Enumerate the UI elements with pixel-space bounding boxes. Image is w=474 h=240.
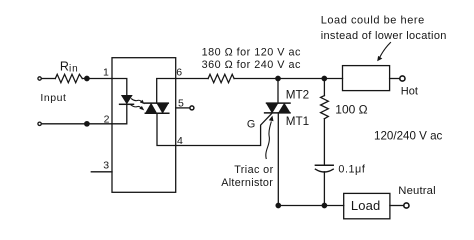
svg-text:Input: Input	[40, 92, 66, 104]
svg-text:Load could be here: Load could be here	[321, 15, 425, 27]
node MT2 junction	[276, 76, 280, 80]
wire pin4 inner	[157, 113, 176, 145]
gate wire	[176, 113, 272, 145]
svg-text:Hot: Hot	[401, 85, 418, 97]
svg-text:100 Ω: 100 Ω	[335, 103, 367, 117]
input terminal (top)	[38, 77, 41, 80]
node MT1 bottom junction	[276, 203, 280, 207]
svg-text:0.1μf: 0.1μf	[338, 163, 365, 175]
node pin2 junction	[85, 122, 89, 126]
svg-text:MT1: MT1	[286, 115, 309, 128]
svg-text:Triac or: Triac or	[234, 164, 273, 176]
svg-text:Alternistor: Alternistor	[221, 177, 273, 189]
svg-text:MT2: MT2	[286, 88, 309, 101]
light arrow 2	[131, 105, 144, 110]
resistor Rin	[55, 74, 82, 82]
svg-text:instead of lower location: instead of lower location	[321, 30, 447, 42]
op-amp? no: optocoupler U1 package outline	[112, 58, 176, 193]
svg-text:4: 4	[177, 135, 183, 147]
pin 5 terminal circle	[190, 106, 194, 110]
wire	[42, 123, 112, 125]
node snubber junction top	[322, 76, 326, 80]
wire pin2 inner	[112, 104, 127, 124]
svg-text:2: 2	[104, 114, 110, 126]
capacitor C1 0.1uf	[315, 165, 333, 172]
node snubber bottom junction	[322, 203, 326, 207]
wire pin3 stub	[91, 171, 112, 173]
value label Rin	[60, 59, 79, 74]
wire snubber down	[323, 79, 325, 96]
node pin1 junction	[85, 76, 89, 80]
resistor R3 100 ohm	[321, 96, 329, 119]
wire to MT2 node	[234, 78, 342, 80]
svg-text:3: 3	[103, 160, 109, 172]
svg-text:180 Ω for 120 V ac: 180 Ω for 120 V ac	[202, 47, 301, 59]
light arrow 1	[132, 99, 145, 104]
wire pin5 stub	[176, 107, 190, 109]
svg-text:R: R	[60, 59, 69, 73]
LED D1	[120, 96, 134, 105]
wire load to Neutral	[390, 205, 403, 207]
svg-text:in: in	[69, 64, 79, 75]
svg-text:Neutral: Neutral	[398, 185, 435, 197]
Hot terminal circle	[400, 76, 405, 81]
annotation arrow to triac gate	[266, 116, 274, 159]
Neutral terminal circle	[404, 203, 409, 208]
wire top rail into load box handled above; upper load box	[343, 66, 390, 91]
resistor R2 (180/360 ohm)	[208, 74, 234, 82]
wire resistor to capacitor	[323, 119, 325, 165]
svg-text:6: 6	[176, 67, 182, 79]
svg-text:120/240 V ac: 120/240 V ac	[374, 130, 443, 143]
load box (lower)	[344, 193, 390, 218]
wire pin1 inner	[112, 79, 127, 96]
wire load box to Hot	[390, 78, 400, 80]
input terminal (bottom)	[38, 122, 41, 125]
wire pin6 inner	[157, 79, 176, 104]
wire bottom rail	[278, 205, 343, 207]
triac Q1 (Triac or Alternistor)	[265, 103, 290, 113]
svg-text:Load: Load	[351, 198, 381, 213]
svg-text:1: 1	[103, 67, 109, 79]
wire pin6 to resistor	[176, 78, 208, 80]
annotation arrow to upper load box	[377, 43, 390, 62]
svg-text:360 Ω for 240 V ac: 360 Ω for 240 V ac	[202, 59, 301, 71]
wire	[82, 78, 112, 80]
wire MT2 down	[277, 79, 279, 104]
svg-text:5: 5	[178, 98, 184, 110]
svg-text:G: G	[247, 119, 255, 131]
wire	[42, 78, 55, 80]
wire capacitor to bottom rail	[323, 172, 325, 206]
photo-triac detector (inside U1)	[145, 103, 169, 113]
wire MT1 down	[277, 113, 279, 206]
